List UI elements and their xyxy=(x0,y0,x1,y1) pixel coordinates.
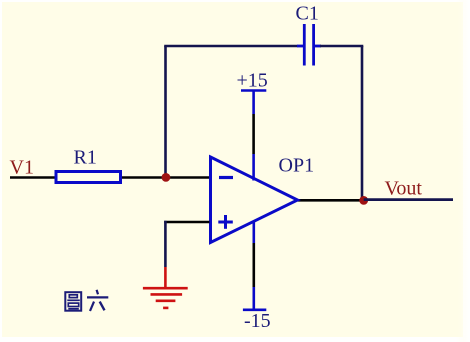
wire R1 to input node xyxy=(122,176,166,179)
wire vertical feedback right xyxy=(361,46,364,201)
caption 圖六 figure six (drawn glyphs) xyxy=(65,290,108,311)
wire +15 to op-amp xyxy=(252,114,255,154)
svg-text:-15: -15 xyxy=(244,310,271,332)
wire input node to op-amp inverting input xyxy=(166,176,210,179)
glyph 圖 inner bottom box xyxy=(68,303,78,306)
wire input from V1 to R1 xyxy=(10,176,56,179)
op-amp minus symbol xyxy=(219,176,233,179)
svg-text:+15: +15 xyxy=(237,70,268,92)
glyph 六 left leg xyxy=(90,302,94,311)
op-amp plus symbol xyxy=(218,215,233,229)
wire -15 to op-amp xyxy=(253,243,256,287)
wire op-amp output to node xyxy=(298,199,363,202)
svg-text:OP1: OP1 xyxy=(279,155,315,177)
svg-text:R1: R1 xyxy=(74,147,97,169)
glyph 圖 outer box xyxy=(65,292,81,311)
glyph 六 top tick xyxy=(97,290,98,295)
glyph 六 right leg xyxy=(100,302,105,311)
svg-text:Vout: Vout xyxy=(385,178,423,200)
svg-text:C1: C1 xyxy=(296,3,319,25)
svg-text:V1: V1 xyxy=(10,157,34,179)
ground xyxy=(143,267,188,308)
glyph 圖 inner top small box xyxy=(69,295,77,298)
wire non-inverting input vertical to ground xyxy=(164,221,167,267)
wire feedback top left segment xyxy=(164,45,297,48)
resistor R1 xyxy=(56,172,121,183)
wire output to Vout xyxy=(364,198,453,201)
glyph 六 horizontal bar xyxy=(87,296,108,298)
wire vertical feedback left xyxy=(164,46,167,178)
wire op-amp non-inverting input horizontal xyxy=(164,221,209,224)
wire feedback top right segment xyxy=(320,45,363,48)
power +15 symbol bar and stem xyxy=(241,91,266,181)
glyph 圖 inner middle bar xyxy=(67,299,80,301)
power -15 symbol bar and stem xyxy=(243,221,266,310)
node B output junction xyxy=(359,196,368,205)
node A input junction xyxy=(162,173,171,182)
glyph 圖 inner bottom bar xyxy=(68,308,79,310)
capacitor C1 xyxy=(297,24,321,66)
op-amp OP1 triangle xyxy=(211,157,298,243)
